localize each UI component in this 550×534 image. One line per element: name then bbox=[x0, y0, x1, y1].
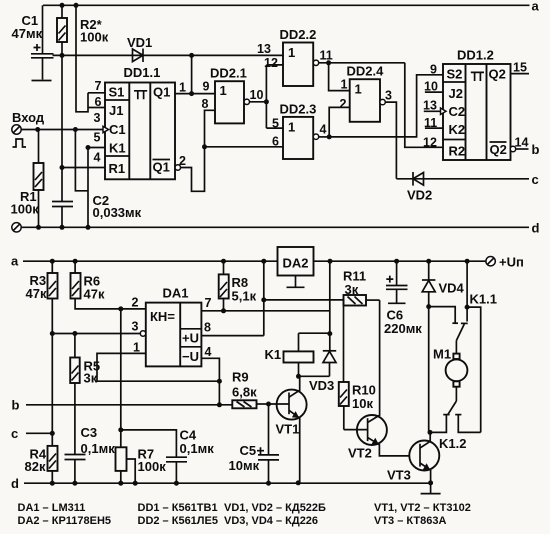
svg-text:2: 2 bbox=[132, 296, 139, 310]
wire rail drop to R11 bbox=[261, 261, 343, 335]
svg-text:1: 1 bbox=[288, 120, 295, 135]
wire c line with diode VD2 bbox=[396, 172, 538, 203]
svg-text:R1: R1 bbox=[109, 161, 126, 176]
resistor R2 bbox=[57, 3, 109, 56]
svg-text:1: 1 bbox=[179, 81, 186, 95]
resistor R3 bbox=[26, 261, 58, 333]
pulse symbol bbox=[13, 139, 27, 147]
svg-text:13: 13 bbox=[423, 99, 437, 113]
gate DD2.3 bbox=[280, 102, 319, 160]
svg-text:K1.2: K1.2 bbox=[439, 436, 466, 451]
diode VD3 bbox=[296, 334, 336, 393]
svg-text:Вход: Вход bbox=[12, 110, 45, 125]
svg-text:M1: M1 bbox=[433, 347, 451, 362]
svg-text:Q2: Q2 bbox=[489, 67, 506, 82]
svg-text:d: d bbox=[11, 476, 19, 491]
svg-text:DD1.2: DD1.2 bbox=[457, 48, 494, 63]
svg-text:a: a bbox=[11, 254, 19, 269]
svg-text:12: 12 bbox=[423, 136, 437, 150]
wire R7 net vertical bbox=[120, 309, 122, 430]
svg-text:b: b bbox=[12, 398, 20, 413]
wire DD2.1 out to DD2.2 pin12 and DD2.3 pin5 bbox=[250, 65, 284, 128]
svg-text:0,1мк: 0,1мк bbox=[81, 441, 116, 456]
svg-text:4: 4 bbox=[320, 123, 327, 137]
wire DA2 vert to K1 junction bbox=[329, 261, 331, 335]
svg-text:DD2.3: DD2.3 bbox=[280, 102, 317, 117]
svg-text:47мк: 47мк bbox=[12, 26, 43, 41]
gate DD2.1 bbox=[210, 66, 250, 124]
svg-text:VD3, VD4 – КД226: VD3, VD4 – КД226 bbox=[224, 515, 318, 527]
capacitor C2 bbox=[52, 193, 142, 230]
svg-text:VT3 – КТ863А: VT3 – КТ863А bbox=[374, 515, 446, 527]
relay coil K1 bbox=[265, 333, 330, 376]
svg-text:VT1: VT1 bbox=[276, 422, 300, 437]
diode VD4 bbox=[422, 261, 465, 309]
wire rail to S1 J1 bbox=[74, 3, 106, 112]
capacitor C5 bbox=[229, 404, 280, 483]
capacitor C6 bbox=[384, 261, 422, 336]
svg-text:7: 7 bbox=[205, 296, 212, 310]
svg-text:VD1: VD1 bbox=[127, 35, 152, 50]
svg-text:Q1: Q1 bbox=[153, 85, 170, 100]
svg-text:47к: 47к bbox=[84, 287, 105, 302]
svg-text:−U: −U bbox=[182, 349, 199, 364]
svg-text:10мк: 10мк bbox=[229, 458, 260, 473]
svg-text:DD2.2: DD2.2 bbox=[280, 27, 317, 42]
wire DD2.4 out to VD2 line bbox=[385, 102, 396, 179]
svg-text:7: 7 bbox=[95, 79, 102, 93]
wire input to K1 pin and ground rail bbox=[75, 130, 105, 230]
svg-text:220мк: 220мк bbox=[384, 321, 422, 336]
wire input line bbox=[21, 129, 104, 131]
svg-text:14: 14 bbox=[515, 136, 529, 150]
svg-text:+Uп: +Uп bbox=[499, 255, 524, 270]
resistor R4 bbox=[25, 446, 58, 483]
transistor VT3 bbox=[387, 432, 439, 483]
wire top rail a bbox=[43, 4, 530, 6]
svg-text:3: 3 bbox=[132, 320, 139, 334]
pin stubs DD1.2 bbox=[425, 91, 443, 93]
svg-text:1: 1 bbox=[341, 78, 348, 92]
svg-text:K1.1: K1.1 bbox=[470, 292, 497, 307]
ground symbol bbox=[421, 483, 441, 494]
svg-text:Q2: Q2 bbox=[490, 142, 507, 157]
svg-text:КН=: КН= bbox=[150, 309, 175, 324]
resistor R7 trimmer bbox=[116, 430, 167, 483]
resistor R1 bbox=[11, 130, 44, 228]
svg-text:100к: 100к bbox=[80, 30, 109, 45]
wire DA1 pin8 line bbox=[201, 335, 263, 337]
svg-text:DA2: DA2 bbox=[283, 256, 309, 271]
resistor R5 bbox=[70, 334, 100, 455]
flip-flop DD1.1 bbox=[103, 65, 175, 179]
motor M1 bbox=[433, 347, 467, 402]
svg-text:DD1 – К561ТВ1: DD1 – К561ТВ1 bbox=[138, 502, 218, 514]
svg-text:+U: +U bbox=[182, 331, 199, 346]
svg-text:5: 5 bbox=[94, 131, 101, 145]
svg-text:82к: 82к bbox=[25, 459, 46, 474]
pin C1 dynamic triangle bbox=[103, 126, 109, 132]
svg-text:J1: J1 bbox=[109, 103, 123, 118]
svg-text:R9: R9 bbox=[232, 370, 249, 385]
wire notQ1 pin 2 to DD2.1 pin 8 bbox=[175, 110, 283, 191]
svg-text:3к: 3к bbox=[345, 282, 359, 297]
svg-text:VD2: VD2 bbox=[407, 188, 432, 203]
wire notQ2 pin 14 to b bbox=[510, 142, 539, 157]
svg-text:DA1: DA1 bbox=[163, 286, 189, 301]
svg-text:DA1 – LM311: DA1 – LM311 bbox=[18, 502, 86, 514]
svg-text:9: 9 bbox=[203, 80, 210, 94]
svg-text:Q1: Q1 bbox=[153, 160, 170, 175]
gate DD2.4 bbox=[347, 64, 386, 122]
svg-text:C5: C5 bbox=[240, 443, 257, 458]
wire VD1 net bbox=[53, 54, 284, 56]
svg-text:c: c bbox=[11, 426, 18, 441]
terminal +Up bbox=[486, 255, 524, 270]
wire DA1 pin1 pin4 loop bbox=[97, 353, 222, 407]
svg-text:5,1к: 5,1к bbox=[232, 289, 257, 304]
svg-text:K1: K1 bbox=[109, 141, 126, 156]
svg-text:9: 9 bbox=[430, 63, 437, 77]
svg-text:10: 10 bbox=[250, 88, 264, 102]
svg-text:6,8к: 6,8к bbox=[232, 385, 257, 400]
wire R3 chain down / c junction / R4 bbox=[11, 334, 55, 446]
regulator DA2 bbox=[278, 247, 314, 287]
node junction VD1 line to Q1 bbox=[189, 53, 194, 58]
svg-text:4: 4 bbox=[94, 151, 101, 165]
svg-text:R2: R2 bbox=[449, 144, 466, 159]
gate DD2.2 bbox=[280, 27, 319, 86]
wire DD2.4 pin 2 bbox=[329, 107, 350, 136]
parts list text bbox=[18, 502, 471, 527]
svg-text:13: 13 bbox=[257, 42, 271, 56]
svg-text:100к: 100к bbox=[138, 459, 167, 474]
resistor R10 bbox=[339, 300, 376, 430]
svg-text:VT1, VT2 – КТ3102: VT1, VT2 – КТ3102 bbox=[374, 502, 471, 514]
relay contact K1.2 bbox=[428, 401, 481, 451]
svg-text:VD3: VD3 bbox=[309, 378, 334, 393]
svg-text:J2: J2 bbox=[449, 86, 463, 101]
svg-text:VD1, VD2 – КД522Б: VD1, VD2 – КД522Б bbox=[224, 502, 326, 514]
svg-text:a: a bbox=[532, 0, 540, 14]
svg-text:C2: C2 bbox=[449, 104, 466, 119]
resistor R6 bbox=[71, 261, 146, 311]
svg-text:8: 8 bbox=[204, 321, 211, 335]
svg-text:6: 6 bbox=[272, 135, 279, 149]
svg-text:DD2.1: DD2.1 bbox=[210, 66, 247, 81]
svg-text:3к: 3к bbox=[84, 371, 98, 386]
svg-text:VT2: VT2 bbox=[348, 446, 372, 461]
svg-text:d: d bbox=[532, 221, 540, 236]
wire bottom rail d bbox=[21, 226, 529, 228]
diode VD1 bbox=[127, 35, 152, 62]
svg-text:DA2 – КР1178ЕН5: DA2 – КР1178ЕН5 bbox=[18, 515, 112, 527]
svg-text:100к: 100к bbox=[11, 202, 40, 217]
svg-text:c: c bbox=[532, 172, 539, 187]
resistor R8 bbox=[219, 261, 257, 311]
wire DA1 pin7 line bbox=[201, 310, 330, 312]
resistor R11 bbox=[343, 269, 380, 306]
svg-text:6: 6 bbox=[95, 95, 102, 109]
terminal input bbox=[12, 110, 45, 134]
svg-text:C3: C3 bbox=[81, 425, 98, 440]
wire DD2.2 out net bbox=[319, 60, 443, 147]
transistor VT1 bbox=[269, 376, 307, 483]
transistor VT2 bbox=[344, 300, 410, 460]
svg-text:K2: K2 bbox=[449, 122, 466, 137]
relay contact K1.1 bbox=[429, 261, 497, 432]
svg-text:11: 11 bbox=[320, 49, 333, 63]
resistor R9 bbox=[232, 370, 271, 409]
svg-text:S2: S2 bbox=[447, 67, 463, 82]
terminal ground left bbox=[12, 223, 21, 232]
svg-text:47к: 47к bbox=[26, 286, 47, 301]
svg-text:3: 3 bbox=[94, 111, 101, 125]
wire R2 to C2 to R1 pin4 bbox=[60, 55, 106, 201]
wire bbox=[191, 55, 193, 93]
svg-text:1: 1 bbox=[288, 45, 295, 60]
svg-text:2: 2 bbox=[340, 97, 347, 111]
svg-text:15: 15 bbox=[513, 61, 527, 75]
comparator DA1 bbox=[140, 286, 201, 367]
svg-text:12: 12 bbox=[264, 56, 278, 70]
svg-text:0,033мк: 0,033мк bbox=[93, 205, 142, 220]
capacitor C4 bbox=[121, 428, 214, 484]
svg-text:10к: 10к bbox=[352, 396, 373, 411]
svg-text:1: 1 bbox=[133, 341, 140, 355]
svg-text:K1: K1 bbox=[265, 347, 282, 362]
wire Q2 pin 15 bbox=[511, 73, 530, 75]
pin C2 dynamic triangle bbox=[441, 108, 447, 115]
svg-text:4: 4 bbox=[205, 345, 212, 359]
flip-flop DD1.2 bbox=[441, 48, 511, 161]
capacitor C1 bbox=[12, 5, 54, 80]
svg-text:1: 1 bbox=[220, 83, 227, 98]
capacitor C3 bbox=[65, 425, 116, 483]
svg-text:3: 3 bbox=[385, 89, 392, 103]
wire rail right of DA2 bbox=[314, 260, 487, 262]
svg-text:b: b bbox=[532, 142, 540, 157]
svg-text:DD2 – К561ЛЕ5: DD2 – К561ЛЕ5 bbox=[138, 515, 218, 527]
svg-text:VD4: VD4 bbox=[439, 281, 465, 296]
svg-text:VT3: VT3 bbox=[387, 468, 411, 483]
svg-text:DD1.1: DD1.1 bbox=[124, 65, 161, 80]
svg-text:5: 5 bbox=[272, 117, 279, 131]
svg-text:C1: C1 bbox=[109, 122, 126, 137]
wire DD2.3 out net to S2 bbox=[319, 75, 443, 140]
svg-text:DD2.4: DD2.4 bbox=[347, 64, 385, 79]
wire pin3 line bbox=[52, 333, 140, 335]
svg-text:S1: S1 bbox=[109, 85, 125, 100]
svg-text:8: 8 bbox=[202, 97, 209, 111]
svg-text:0,1мк: 0,1мк bbox=[180, 441, 215, 456]
svg-text:1: 1 bbox=[355, 82, 362, 97]
wire Q1 output pin 1 bbox=[175, 93, 215, 95]
